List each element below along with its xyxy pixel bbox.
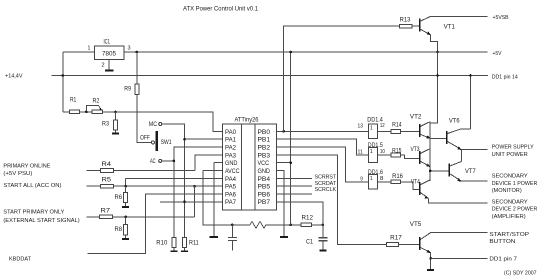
svg-text:SCRCLK: SCRCLK bbox=[315, 187, 337, 193]
svg-text:PA6: PA6 bbox=[225, 192, 237, 198]
wire AVCC to filter bbox=[203, 171, 232, 225]
svg-text:1: 1 bbox=[370, 149, 373, 155]
node junction R12/C1/PB7 bbox=[322, 224, 325, 227]
resistor R9 bbox=[124, 52, 151, 142]
svg-text:OFF: OFF bbox=[140, 135, 150, 141]
wire R2 to PA0 bbox=[103, 112, 223, 131]
capacitor C1 bbox=[306, 225, 327, 250]
svg-text:R2: R2 bbox=[93, 99, 100, 105]
svg-text:R9: R9 bbox=[124, 87, 131, 93]
wire +5V feed to transistor block bbox=[430, 52, 437, 123]
capacitor C2 (AVCC decoupling) bbox=[228, 224, 237, 251]
svg-text:VT4: VT4 bbox=[411, 180, 421, 186]
svg-text:1: 1 bbox=[88, 46, 91, 52]
transistor VT3 bbox=[411, 147, 431, 167]
resistor R13 bbox=[400, 18, 420, 29]
wire KBDDAT to PA6 bbox=[88, 194, 223, 254]
wire VT6 emitter to VT7 collector bbox=[460, 150, 462, 162]
svg-text:MC: MC bbox=[149, 122, 158, 128]
node POWER SUPPLY UNIT POWER output bbox=[461, 145, 534, 158]
svg-text:PB1: PB1 bbox=[258, 138, 271, 144]
svg-text:10: 10 bbox=[380, 149, 385, 155]
node junction PB0/R13 riser bbox=[282, 130, 285, 133]
wire PA5 row bbox=[195, 185, 223, 187]
node SECONDARY DEVICE 2 output bbox=[428, 198, 537, 220]
svg-text:PA7: PA7 bbox=[225, 200, 237, 206]
svg-text:PB3: PB3 bbox=[258, 153, 271, 159]
svg-text:R8: R8 bbox=[115, 227, 123, 233]
wire riser R7 to PA5 bbox=[194, 186, 196, 217]
node junction VT1 emitter/+5V bbox=[436, 51, 439, 54]
node junction R5/R7 riser to PA5 bbox=[193, 185, 196, 188]
svg-text:PB7: PB7 bbox=[258, 200, 271, 206]
svg-text:R6: R6 bbox=[115, 195, 123, 201]
wire R1 feed bbox=[63, 111, 70, 113]
node junction R8 bbox=[124, 216, 127, 219]
resistor R11 bbox=[182, 238, 199, 252]
svg-text:SCRRST: SCRRST bbox=[315, 175, 337, 181]
svg-text:(+5V PSU): (+5V PSU) bbox=[3, 171, 32, 177]
svg-text:R10: R10 bbox=[156, 241, 168, 247]
resistor R4 bbox=[86, 162, 194, 173]
svg-text:DD1 pin 14: DD1 pin 14 bbox=[492, 75, 518, 81]
node junction R6 bbox=[124, 185, 127, 188]
ground C1 bbox=[319, 249, 326, 251]
node junction +5V / R9 bbox=[136, 51, 139, 54]
gate DD1.6 bbox=[360, 170, 391, 189]
wire PB1 to DD1.5 bbox=[276, 139, 368, 155]
wire DD1 pin14 feed to VT6 bbox=[469, 76, 471, 129]
svg-text:VT2: VT2 bbox=[410, 114, 422, 120]
node SECONDARY DEVICE 1 output bbox=[461, 174, 537, 195]
svg-text:9: 9 bbox=[360, 177, 363, 183]
wire PB3 to R17 bbox=[276, 155, 386, 245]
svg-text:R17: R17 bbox=[390, 236, 402, 242]
node junction VT3e/VT7b bbox=[429, 170, 432, 173]
svg-text:VT6: VT6 bbox=[449, 119, 460, 125]
svg-text:DEVICE 1 POWER: DEVICE 1 POWER bbox=[492, 181, 538, 187]
svg-text:PA5: PA5 bbox=[225, 185, 237, 191]
ground GND right bbox=[280, 236, 288, 238]
wire R13 riser bbox=[284, 26, 400, 131]
node junction rail feed bbox=[436, 74, 439, 77]
ground R3 bbox=[112, 132, 119, 134]
wire IC1 input from rail bbox=[62, 52, 64, 112]
svg-text:+5VSB: +5VSB bbox=[493, 15, 509, 21]
svg-text:PB5: PB5 bbox=[258, 185, 271, 191]
svg-text:SECONDARY: SECONDARY bbox=[492, 199, 528, 205]
IC U2 ATtiny26 bbox=[223, 118, 277, 210]
resistor R14 bbox=[391, 122, 419, 133]
svg-text:+14,4V: +14,4V bbox=[5, 74, 23, 80]
svg-text:PA0: PA0 bbox=[225, 130, 237, 136]
node junction R1/R2 bbox=[85, 111, 88, 114]
svg-text:R15: R15 bbox=[392, 148, 402, 154]
wire R4 to PA3 bbox=[195, 155, 223, 171]
svg-text:ATTiny26: ATTiny26 bbox=[235, 118, 260, 124]
node START/STOP BUTTON output bbox=[431, 232, 530, 245]
svg-text:1: 1 bbox=[370, 126, 373, 132]
svg-text:R4: R4 bbox=[102, 162, 112, 168]
svg-text:1: 1 bbox=[370, 176, 373, 182]
wire AC net to PA2/R10 bbox=[162, 147, 223, 238]
wire R1-R2 bbox=[79, 111, 92, 113]
ground R6 bbox=[122, 206, 129, 208]
svg-text:(AMPLIFIER): (AMPLIFIER) bbox=[492, 214, 526, 220]
svg-text:UNIT POWER: UNIT POWER bbox=[492, 152, 528, 158]
resistor R15 bbox=[391, 148, 419, 158]
transistor VT5 bbox=[410, 222, 431, 253]
node junction rail-input bbox=[62, 74, 65, 77]
svg-text:START PRIMARY ONLY: START PRIMARY ONLY bbox=[3, 210, 64, 216]
wire PB0 to DD1.4 bbox=[276, 130, 368, 132]
svg-text:PRIMARY ONLINE: PRIMARY ONLINE bbox=[3, 163, 50, 169]
wire VT5 emitter to DD1 pin7 / ground bbox=[429, 253, 432, 270]
inductor L1 (AVCC ferrite) bbox=[232, 221, 301, 228]
node SCRCLK bbox=[276, 187, 336, 194]
svg-text:VCC: VCC bbox=[258, 161, 270, 167]
svg-text:DEVICE 2 POWER: DEVICE 2 POWER bbox=[492, 207, 538, 213]
svg-text:SCRDAT: SCRDAT bbox=[315, 181, 337, 187]
node junction DD1pin14/VT6 bbox=[469, 74, 472, 77]
svg-text:VT5: VT5 bbox=[410, 222, 422, 228]
transistor VT6 bbox=[447, 119, 471, 150]
node PRIMARY ONLINE input bbox=[3, 163, 50, 177]
svg-text:R14: R14 bbox=[392, 122, 402, 128]
wire PB7 to reset node bbox=[276, 202, 323, 225]
ground IC1 pin2 bbox=[105, 60, 114, 71]
wire VT3 emitter to VT7 base bbox=[430, 170, 449, 172]
svg-text:2: 2 bbox=[102, 63, 105, 69]
resistor R2 (trimmer) bbox=[86, 99, 102, 114]
wire VT2 chain bbox=[429, 122, 431, 182]
ground GND left bbox=[210, 236, 218, 238]
ground R11 bbox=[181, 250, 188, 252]
svg-text:SECONDARY: SECONDARY bbox=[492, 174, 528, 180]
transistor VT4 bbox=[411, 180, 430, 199]
svg-text:PA2: PA2 bbox=[225, 145, 237, 151]
svg-text:PB4: PB4 bbox=[258, 177, 271, 183]
svg-text:POWER SUPPLY: POWER SUPPLY bbox=[492, 145, 534, 151]
svg-text:START ALL (ACC ON): START ALL (ACC ON) bbox=[3, 183, 61, 189]
svg-text:R12: R12 bbox=[302, 216, 314, 222]
resistor R17 bbox=[387, 236, 420, 247]
gate DD1.5 bbox=[358, 143, 392, 162]
wire PA4 row bbox=[126, 178, 223, 186]
wire PB2 to DD1.6 bbox=[276, 147, 368, 182]
svg-text:(MONITOR): (MONITOR) bbox=[492, 188, 522, 194]
node SCRRST bbox=[276, 175, 336, 181]
svg-text:IC1: IC1 bbox=[104, 40, 111, 46]
ground R8 bbox=[122, 238, 129, 240]
resistor R6 bbox=[115, 186, 128, 207]
resistor R5 bbox=[86, 178, 194, 189]
svg-text:(C) SDY 2007: (C) SDY 2007 bbox=[504, 271, 537, 277]
svg-text:R1: R1 bbox=[70, 98, 77, 104]
svg-text:C1: C1 bbox=[306, 240, 314, 246]
wire VT2 emitter to VT6 base bbox=[430, 137, 446, 139]
svg-text:R16: R16 bbox=[392, 174, 403, 180]
svg-text:+5V: +5V bbox=[493, 51, 502, 57]
svg-text:(EXTERNAL START SIGNAL): (EXTERNAL START SIGNAL) bbox=[3, 218, 79, 224]
gate DD1.4 bbox=[358, 117, 392, 138]
ground VT5 bbox=[427, 269, 434, 271]
node +14.4V / DD1 pin 14 rail bbox=[5, 74, 518, 81]
resistor R8 bbox=[115, 217, 128, 239]
svg-text:PB0: PB0 bbox=[258, 130, 271, 136]
resistor R7 bbox=[86, 209, 194, 219]
svg-text:VT3: VT3 bbox=[411, 147, 421, 153]
svg-text:BUTTON: BUTTON bbox=[489, 239, 515, 245]
svg-text:PB6: PB6 bbox=[258, 192, 271, 198]
resistor R12 bbox=[301, 216, 323, 227]
node +5V rail bbox=[124, 51, 502, 57]
transistor VT1 bbox=[420, 16, 456, 52]
svg-text:PA1: PA1 bbox=[225, 138, 237, 144]
svg-text:R13: R13 bbox=[400, 18, 411, 24]
wire VCC riser bbox=[276, 51, 292, 225]
resistor R3 bbox=[102, 112, 118, 133]
wire MC net to PA1/PA7/R11 bbox=[160, 124, 223, 238]
resistor R10 bbox=[156, 238, 176, 252]
svg-text:PB2: PB2 bbox=[258, 145, 271, 151]
ground R10 bbox=[170, 250, 177, 252]
svg-text:GND: GND bbox=[258, 169, 271, 175]
svg-text:3: 3 bbox=[128, 46, 131, 52]
svg-text:13: 13 bbox=[358, 124, 364, 130]
svg-text:KBDDAT: KBDDAT bbox=[9, 256, 32, 262]
svg-text:R5: R5 bbox=[102, 178, 112, 184]
svg-text:12: 12 bbox=[380, 123, 385, 129]
node DD1 pin 7 bbox=[431, 256, 517, 262]
node junction R3 tap bbox=[114, 111, 117, 114]
switch SW1 bbox=[140, 122, 172, 165]
transistor VT2 bbox=[410, 114, 431, 139]
svg-text:VT1: VT1 bbox=[444, 25, 456, 31]
transistor VT7 bbox=[449, 162, 476, 182]
svg-text:ATX Power Control Unit v0.1: ATX Power Control Unit v0.1 bbox=[183, 7, 259, 13]
regulator IC1 7805 bbox=[63, 40, 137, 69]
svg-text:R11: R11 bbox=[189, 241, 199, 247]
svg-text:R7: R7 bbox=[101, 209, 111, 215]
node SCRDAT bbox=[276, 181, 336, 187]
svg-text:R3: R3 bbox=[102, 122, 110, 128]
node +5VSB bbox=[431, 15, 509, 21]
wire GND left pin bbox=[214, 163, 223, 237]
svg-text:8: 8 bbox=[380, 176, 384, 182]
svg-text:AC: AC bbox=[150, 159, 156, 165]
wire GND right pin bbox=[276, 171, 284, 238]
svg-text:11: 11 bbox=[358, 149, 363, 155]
resistor R1 bbox=[70, 98, 80, 114]
svg-text:GND: GND bbox=[225, 161, 238, 167]
resistor R16 bbox=[391, 174, 419, 190]
svg-text:PA3: PA3 bbox=[225, 153, 237, 159]
svg-text:SW1: SW1 bbox=[161, 140, 172, 146]
svg-text:AVCC: AVCC bbox=[225, 169, 240, 175]
svg-text:VT7: VT7 bbox=[465, 169, 476, 175]
svg-text:7805: 7805 bbox=[102, 52, 117, 58]
svg-text:PA4: PA4 bbox=[225, 177, 237, 183]
node junction VCC/filter bbox=[289, 224, 292, 227]
svg-text:START/STOP: START/STOP bbox=[489, 232, 529, 238]
node START PRIMARY ONLY input bbox=[3, 210, 79, 224]
svg-text:DD1 pin 7: DD1 pin 7 bbox=[489, 256, 517, 262]
